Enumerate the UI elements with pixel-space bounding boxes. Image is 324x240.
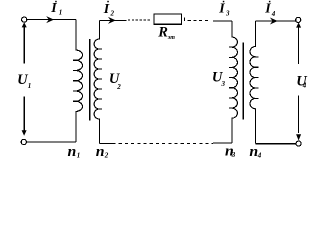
svg-text:4: 4 <box>271 10 276 18</box>
svg-text:3: 3 <box>221 80 226 88</box>
svg-text:2: 2 <box>110 10 115 18</box>
svg-text:2: 2 <box>104 152 109 160</box>
svg-text:4: 4 <box>257 151 262 159</box>
svg-text:I: I <box>264 2 271 17</box>
svg-text:I: I <box>103 2 110 17</box>
svg-text:n: n <box>96 144 105 160</box>
svg-text:3: 3 <box>225 9 230 17</box>
svg-text:1: 1 <box>28 82 32 90</box>
svg-text:1: 1 <box>59 9 63 17</box>
svg-text:1: 1 <box>77 152 81 160</box>
svg-text:2: 2 <box>116 83 121 91</box>
svg-text:эт: эт <box>167 35 175 41</box>
svg-text:I: I <box>218 1 225 16</box>
svg-text:4: 4 <box>302 82 307 90</box>
svg-text:R: R <box>157 25 168 41</box>
svg-text:I: I <box>50 1 57 16</box>
svg-text:n: n <box>68 144 77 160</box>
svg-text:3: 3 <box>231 151 236 159</box>
